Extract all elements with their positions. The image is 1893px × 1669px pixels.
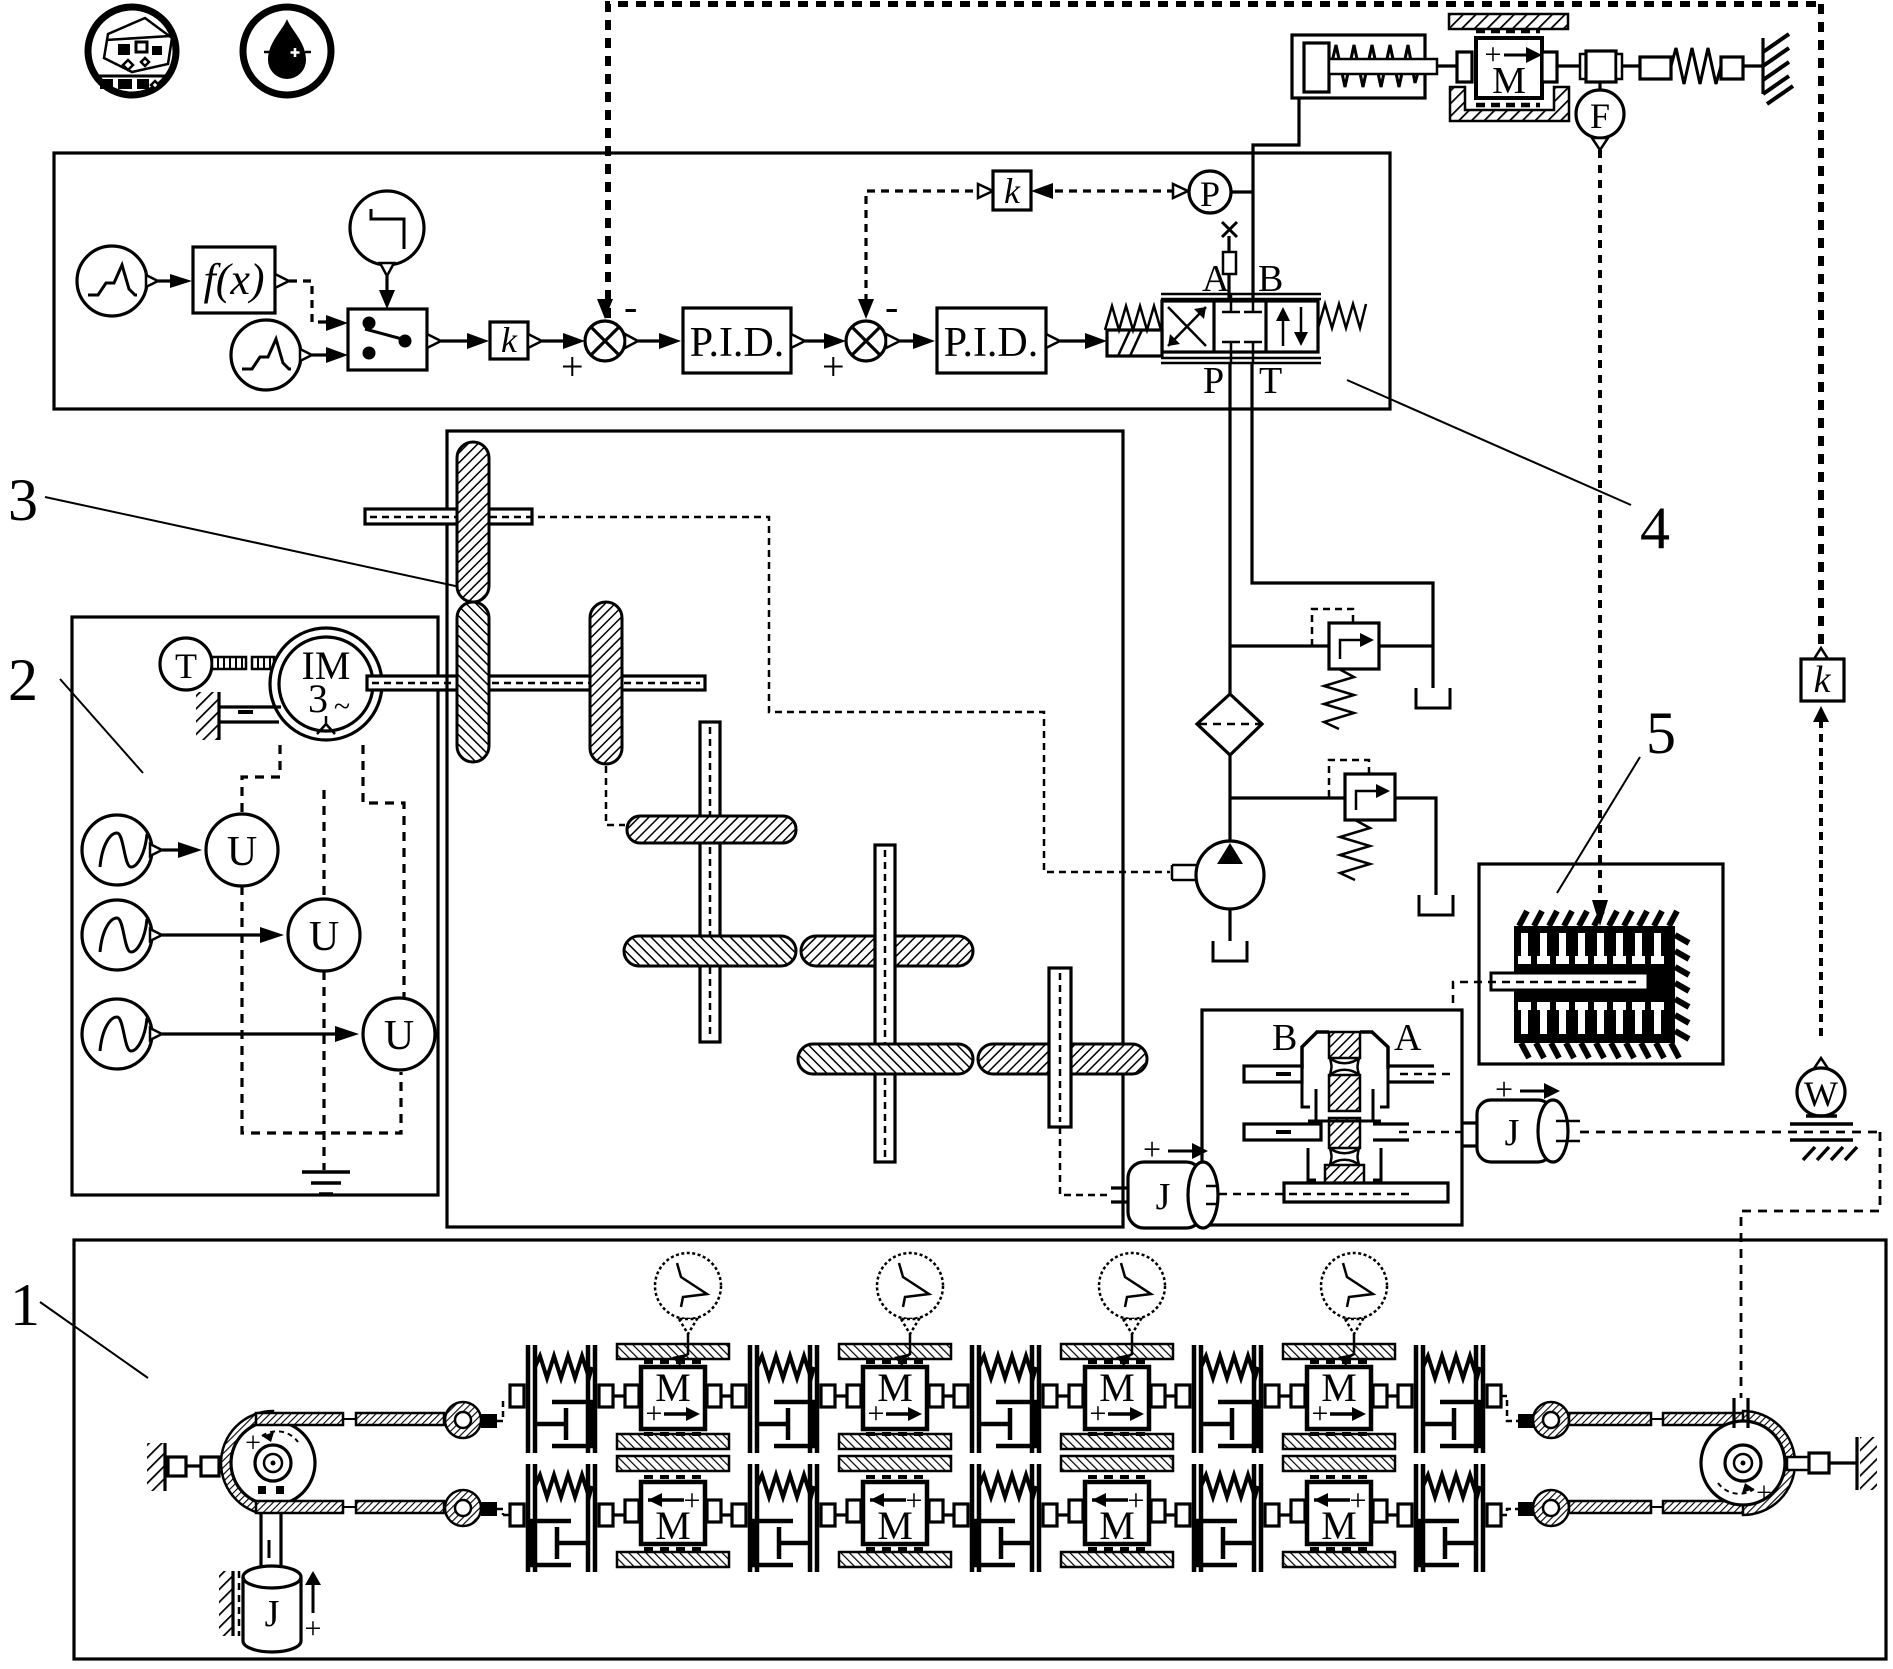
rope eye left top [445,1397,503,1438]
pipe P port down [1228,363,1231,694]
wire dashed right column from top border down to gain k2 [1818,4,1824,650]
sensor T (torque) [160,638,212,690]
shaft link top row 3 [1279,1394,1398,1397]
shaft link top row 2 [1057,1394,1176,1397]
svg-text:U: U [384,1013,414,1059]
rail hatched above mass M4a [1283,1344,1395,1359]
rail hatched below mass M1b [617,1552,729,1567]
rail dashed below mass M0 [1476,103,1540,108]
electrical box outline [72,617,438,1195]
cylinder head cap [1302,1032,1388,1069]
svg-text:5: 5 [1646,700,1676,766]
svg-text:+: + [822,344,845,389]
relief valve RV2 [1329,760,1395,880]
svg-text:4: 4 [1640,495,1670,561]
wire dotted A upper to cooler [1400,1073,1453,1076]
wire dashed motor phase a [242,745,280,812]
pipe branch to RV2 [1230,796,1345,799]
valve left cell crossed arrows [1168,307,1206,346]
wire dashed P sensor to k3 [1031,183,1053,199]
rod A upper [1388,1066,1434,1082]
gear G1 [457,442,489,602]
valve 4/3 proportional body [1161,294,1321,363]
vertical shaft V2 [875,845,895,1162]
wall left of drive pulley [147,1443,243,1491]
valve right cell parallel arrows [1276,307,1308,346]
wire step to switch [385,276,388,290]
valve right spring [1318,304,1366,328]
filter F1 [1197,694,1262,755]
spring-damper unit SD1a top row [510,1345,613,1453]
wire S2 to PID2 [886,334,900,348]
wire R2 to switch input 2 [312,353,326,356]
rope eye right bottom [1501,1490,1569,1526]
vertical shaft V3 [1049,968,1071,1127]
motor stator reaction rod to wall [196,692,281,740]
switch block SW1 [348,309,427,370]
svg-text:3: 3 [308,676,328,721]
svg-text:k: k [1814,659,1832,701]
gear G3 [590,602,622,764]
label 2 with leader line [60,679,143,773]
wire PID2 to valve solenoid [1046,334,1060,348]
rod to wall [1743,64,1763,67]
tank pump suction [1213,941,1247,961]
rope eye left bottom [445,1490,510,1526]
svg-text:P.I.D.: P.I.D. [944,320,1039,366]
gear G5 [624,936,796,966]
connector right of M0 [1542,52,1557,82]
gear G2 [457,602,489,762]
svg-text:J: J [1156,1176,1171,1218]
pipe P line to RV1 [1230,644,1329,647]
svg-text:A: A [1394,1017,1422,1059]
gear G6 [801,936,973,966]
pipe T port down and to tank [1252,363,1433,688]
spring-damper unit SD2b bottom row [732,1464,835,1572]
wire dotted A lower to inertia J2 [1399,1131,1463,1134]
rail hatched below mass M2b [839,1552,951,1567]
spring-damper unit SD4a top row [1176,1345,1279,1453]
spring-damper unit SD5a top row [1398,1345,1501,1453]
shaft link bottom row 3 [1279,1513,1398,1516]
voltmeter U1 [206,814,278,886]
wire dashed F sensor down to cooler [1598,150,1602,900]
shaft pulley to inertia J0 [261,1507,281,1567]
cooler heat-exchanger body [1514,911,1689,1058]
wire dashed from W sensor up to k2 [1819,722,1823,1036]
svg-text:k: k [501,320,518,360]
shaft link bottom row 2 [1057,1513,1176,1516]
function block f(x) [193,247,275,313]
svg-text:f(x): f(x) [203,255,264,304]
inertia J0 vertical cylinder [243,1566,301,1652]
motor shaft to gearbox [367,676,705,690]
belt left bottom segment [256,1501,343,1513]
svg-text:~: ~ [334,690,350,723]
rail hatched below mass M3a [1061,1434,1173,1449]
source ramp R2 [231,320,312,390]
coupling striped shaft T-motor [212,657,274,669]
stop block left [1640,57,1671,79]
cooler piston rod [1491,973,1648,990]
motor IM 3-phase [270,628,382,740]
svg-text:+: + [305,1612,322,1645]
rail hatched above mass M4b [1283,1456,1395,1471]
spring-damper unit SD3b bottom row [954,1464,1057,1572]
svg-text:+: + [245,1428,261,1459]
tank RV2 [1419,895,1453,915]
spring-damper unit SD3a top row [954,1345,1057,1453]
connector left of M0 [1457,52,1472,82]
icon software-logo [88,7,176,95]
wall left of inertia J0 [219,1571,239,1636]
spring to wall [1671,48,1721,84]
arrow motion J0 [305,1571,322,1645]
rail hatched above mass M2b [839,1456,951,1471]
ground electrical [302,1172,350,1194]
rack base tee [1219,1183,1448,1202]
rail hatched below mass M2a [839,1434,951,1449]
source step (switch control) [350,191,424,276]
wire dotted J2 to W ground [1580,1131,1880,1134]
wire dashed motor phase b [322,790,325,897]
tension pulley right [1701,1421,1785,1509]
vertical shaft V1 [700,722,720,1042]
spring-damper unit SD1b bottom row [510,1464,613,1572]
arrow dashed into S1 (minus) [597,299,613,319]
pump fixed displacement [1172,841,1264,909]
svg-text:M: M [1099,1503,1135,1548]
rail hatched below mass M3b [1061,1552,1173,1567]
pipe filter to pump [1228,755,1231,841]
clevis fork above right pulley [1734,1398,1748,1428]
voltmeter U2 [288,899,360,971]
label 5 with leader line [1557,757,1640,893]
shaft link top row 1 [835,1394,954,1397]
svg-text:F: F [1590,96,1610,136]
wire dashed speed-feedback top border [608,4,1821,318]
mass block M0 [1476,38,1542,102]
cylinder mid walls [1302,1069,1388,1121]
svg-text:M: M [655,1503,691,1548]
wire Ua to U1 [162,848,178,851]
input shaft top [365,509,532,524]
wire dashed pressure feedback k3 to S2 [866,191,978,302]
shaft right pulley to wall [1787,1437,1877,1490]
mass block M2a top row [847,1362,943,1434]
belt wrap left pulley [221,1411,273,1515]
svg-text:U: U [227,829,257,875]
label 1 with leader line [40,1302,148,1378]
tank T return [1416,688,1450,708]
svg-text:M: M [877,1503,913,1548]
wire PID1 to S2 [791,334,805,348]
wire R1 to f(x) [158,279,170,282]
belt wrap right pulley [1743,1411,1795,1515]
gear G7 [798,1044,973,1074]
svg-text:P.I.D.: P.I.D. [690,320,785,366]
ground under W [1790,1116,1857,1160]
wire dashed motor phase c [363,745,404,997]
svg-text:T: T [175,646,197,686]
wire k1 to summing junction S1 [528,334,542,348]
svg-text:-: - [885,284,898,329]
rail hatched above mass M1b [617,1456,729,1471]
svg-text:B: B [1258,258,1283,300]
wire A port with orifice and plug [1227,236,1230,301]
spring-damper unit SD2a top row [732,1345,835,1453]
svg-text:+: + [1090,1397,1107,1430]
mass block M1b bottom row [625,1477,721,1549]
gauge position sensor G2 [877,1253,943,1366]
rod B lower [1244,1124,1321,1140]
rack cylinder box outline [1202,1010,1462,1225]
wire Uc to U3 [162,1032,335,1035]
wire Ub to U2 [162,933,260,936]
svg-text:-: - [624,284,637,329]
spring-damper unit SD5b bottom row [1398,1464,1501,1572]
belt right top segment [1569,1413,1651,1425]
gauge position sensor G3 [1099,1253,1165,1366]
sensor F (force) [1576,82,1624,150]
sensor W (speed) [1797,1058,1845,1116]
rail hatched below mass M4a [1283,1434,1395,1449]
valve solenoid [1107,330,1162,356]
summing junction S1 [585,321,625,361]
shaft link bottom row 1 [835,1513,954,1516]
valve left spring [1105,306,1161,330]
valve centre cell blocked ports [1222,294,1262,363]
pipe RV2 to tank [1395,798,1436,895]
spring-return cylinder housing [1292,35,1425,98]
controller box outline [54,153,1390,409]
pipe pump to tank [1228,909,1231,941]
drive pulley left [231,1421,315,1505]
relief valve RV1 [1312,609,1379,729]
mass block M3b bottom row [1069,1477,1165,1549]
gearbox outline [447,431,1123,1227]
rod B upper [1244,1066,1302,1082]
wire switch to gain k1 [427,334,441,348]
wire dashed gear1 shaft to pump [370,517,1170,872]
icon hydraulic-drop-logo [243,7,331,95]
wire dashed U1 to neutral bus [242,886,401,1133]
label 4 with leader line [1347,380,1631,505]
inertia J2 [1463,1071,1580,1162]
rail hatched above mass M3b [1061,1456,1173,1471]
rail hatched below mass M4b [1283,1552,1395,1567]
wire dashed V3 to inertia J1 [1060,1127,1109,1195]
wire dashed feedback to drive pulley [1741,1132,1880,1398]
cooler box outline [1479,864,1723,1064]
gear G8 [978,1044,1147,1074]
gain block k2 (right column) [1801,648,1844,701]
svg-text:W: W [1804,1074,1838,1114]
rail hatched above mass M2a [839,1344,951,1359]
gauge position sensor G1 [655,1253,721,1366]
gain block k3 [993,171,1031,210]
bearing joint block [1580,51,1622,82]
summing junction S2 [846,321,886,361]
rope eye right top [1501,1396,1569,1438]
cylinder lower walls [1308,1148,1381,1180]
gear G4 [627,816,796,843]
spring-damper unit SD4b bottom row [1176,1464,1279,1572]
svg-text:+: + [646,1397,663,1430]
gain block k1 [490,322,528,359]
svg-text:J: J [1505,1112,1520,1154]
belt right bottom segment [1569,1501,1651,1513]
svg-text:+: + [1312,1397,1329,1430]
guide channel hatched below M0 [1450,87,1569,121]
wire dashed f(x) to switch input 1 [275,274,289,288]
gauge position sensor G4 [1321,1253,1387,1366]
svg-text:U: U [309,914,339,960]
ceiling hatched wall above mass M0 [1449,14,1568,29]
mass block M1a top row [625,1362,721,1434]
svg-text:P: P [1203,360,1224,402]
svg-text:M: M [1492,60,1526,102]
rack piston column hatched [1325,1032,1364,1202]
svg-text:3: 3 [8,467,38,533]
wire dashed U2 to ground [322,971,325,1170]
wire dashed G3 to G4 [606,766,625,825]
label 3 with leader line [45,497,483,592]
svg-text:T: T [1259,360,1282,402]
pipe RV1 to T line [1379,644,1433,647]
rail hatched above mass M1a [617,1344,729,1359]
mass block M2b bottom row [847,1477,943,1549]
wire B port up to spring cylinder [1253,98,1299,301]
mass block M4a top row [1291,1362,1387,1434]
svg-text:2: 2 [8,647,38,713]
svg-text:+: + [1756,1478,1772,1509]
source sine Ua [82,815,162,885]
voltmeter U3 [363,998,435,1070]
source ramp R1 [77,246,158,316]
sensor P (pressure) [1189,171,1231,213]
svg-text:+: + [1143,1131,1161,1167]
stop block right [1721,57,1743,79]
svg-text:B: B [1272,1017,1297,1059]
wire rod to spring-stop chain [1622,64,1640,67]
svg-text:+: + [1495,1071,1513,1107]
svg-text:M: M [1321,1503,1357,1548]
svg-text:+: + [561,344,584,389]
bench box outline [74,1240,1886,1659]
cylinder spring [1331,45,1420,87]
PID block PID1 [683,308,791,373]
piston rod out of cylinder [1329,59,1437,74]
wire P sensor tap to B line [1231,190,1253,193]
wire S1 to PID1 [625,334,638,348]
svg-text:1: 1 [10,1272,40,1338]
svg-text:J: J [265,1593,280,1635]
source sine Ub [82,900,162,970]
svg-text:k: k [1004,171,1021,211]
cylinder piston plate [1304,43,1329,92]
belt left top segment [256,1413,343,1425]
arrow dashed into S2 (minus) [858,299,874,319]
rail dashed above mass M0 [1476,29,1540,34]
PID block PID2 [937,308,1046,373]
source sine Uc [82,999,162,1069]
shaft link top row 0 [613,1394,732,1397]
wire dashed cooler rod to cylinder A line [1453,982,1636,1074]
shaft link bottom row 0 [613,1513,732,1516]
svg-text:P: P [1200,174,1220,214]
inertia J1 [1111,1131,1219,1228]
rod A lower [1373,1124,1409,1140]
rail hatched above mass M3a [1061,1344,1173,1359]
mass block M3a top row [1069,1362,1165,1434]
wall hatched right [1763,34,1793,104]
mass block M4b bottom row [1291,1477,1387,1549]
svg-text:+: + [868,1397,885,1430]
rail hatched below mass M1a [617,1434,729,1449]
